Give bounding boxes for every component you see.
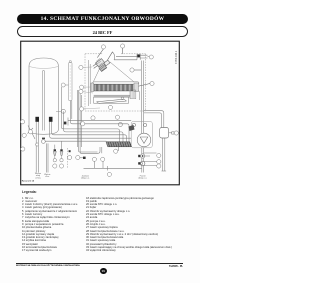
svg-text:9 953.046.1: 9 953.046.1 bbox=[175, 50, 178, 64]
svg-text:zimnej: zimnej bbox=[35, 177, 41, 179]
svg-text:obiegu c.o.: obiegu c.o. bbox=[81, 178, 90, 180]
svg-text:Rysunek 14: Rysunek 14 bbox=[22, 180, 35, 183]
svg-text:c.w.u.: c.w.u. bbox=[45, 176, 50, 178]
svg-text:obiegu c.o.: obiegu c.o. bbox=[138, 178, 147, 180]
